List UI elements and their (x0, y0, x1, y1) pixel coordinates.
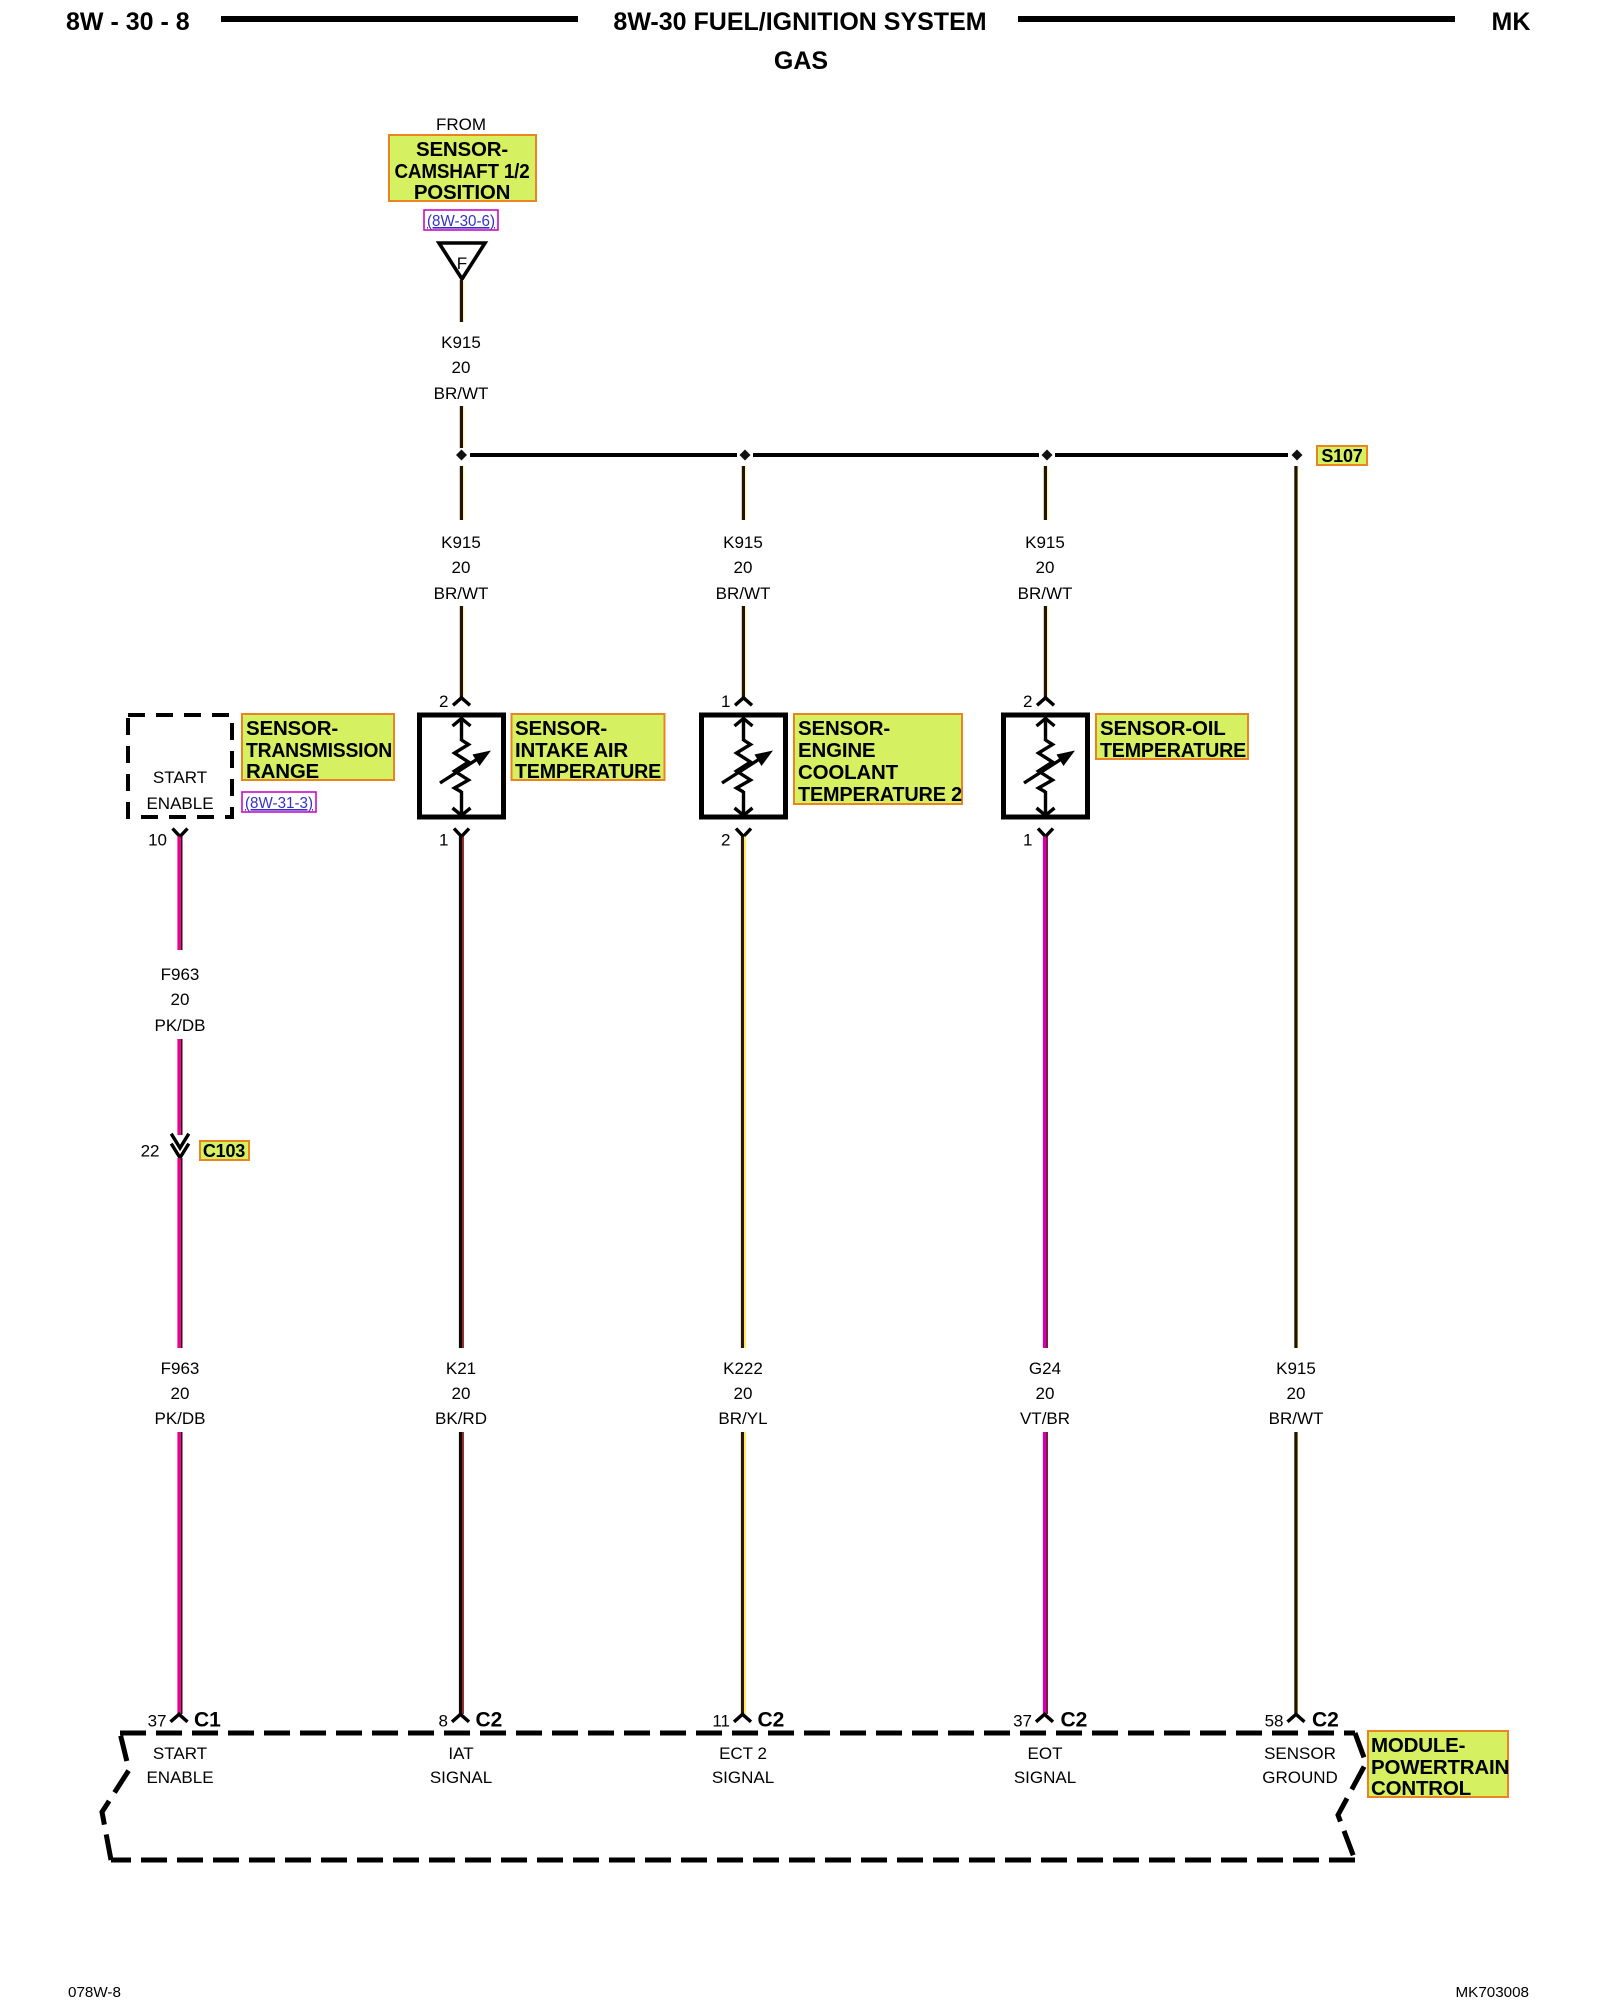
svg-text:37: 37 (1013, 1712, 1032, 1731)
svg-text:FROM: FROM (436, 115, 486, 134)
off-page connector F (triangle) (439, 243, 485, 279)
wire F963 to PCM pin 37 (179, 1432, 182, 1714)
svg-text:RANGE: RANGE (246, 760, 319, 783)
svg-text:20: 20 (1036, 1384, 1055, 1403)
svg-text:078W-8: 078W-8 (68, 1984, 121, 2000)
svg-text:MODULE-: MODULE- (1371, 1734, 1465, 1757)
svg-text:GROUND: GROUND (1262, 1768, 1338, 1787)
svg-text:ECT 2: ECT 2 (719, 1744, 767, 1763)
wire K915 to PCM pin 58 (1296, 1432, 1299, 1714)
svg-text:MK703008: MK703008 (1456, 1984, 1529, 2000)
svg-text:C1: C1 (194, 1709, 221, 1732)
svg-text:START: START (153, 768, 207, 787)
svg-text:SENSOR: SENSOR (1264, 1744, 1336, 1763)
wire F963 into C103 (179, 1039, 182, 1135)
svg-text:C103: C103 (203, 1141, 245, 1161)
thermistor EOT sensor box (1004, 715, 1088, 817)
svg-text:11: 11 (712, 1712, 730, 1731)
wire drop to ECT2 sensor (744, 466, 747, 520)
svg-text:BK/RD: BK/RD (435, 1409, 487, 1428)
svg-text:BR/YL: BR/YL (718, 1409, 767, 1428)
svg-text:TEMPERATURE 2: TEMPERATURE 2 (798, 783, 962, 806)
splice label S107 (1317, 446, 1367, 466)
PCM function label EOT SIGNAL (1014, 1744, 1076, 1787)
svg-text:20: 20 (171, 990, 190, 1009)
wire K21 from IAT pin 1 (461, 837, 464, 1349)
svg-text:TRANSMISSION: TRANSMISSION (246, 739, 392, 762)
svg-text:TEMPERATURE: TEMPERATURE (1100, 739, 1246, 762)
svg-text:2: 2 (439, 692, 448, 711)
PCM pin 8 terminal C2 (439, 1709, 503, 1732)
svg-text:S107: S107 (1321, 446, 1362, 466)
svg-text:F963: F963 (161, 1359, 200, 1378)
svg-text:58: 58 (1265, 1712, 1284, 1731)
svg-text:C2: C2 (1312, 1709, 1339, 1732)
wire K21 to PCM pin 8 (461, 1432, 464, 1714)
svg-text:F963: F963 (161, 965, 200, 984)
junction at camshaft column (456, 450, 467, 461)
svg-text:SENSOR-: SENSOR- (416, 138, 508, 161)
svg-text:BR/WT: BR/WT (1018, 584, 1073, 603)
svg-text:PK/DB: PK/DB (154, 1016, 205, 1035)
PCM pin 37 terminal C2 (1013, 1709, 1087, 1732)
svg-text:K915: K915 (723, 533, 763, 552)
wire K222 to PCM pin 11 (743, 1432, 746, 1714)
wire into EOT pin 2 (1046, 606, 1049, 698)
module PCM dashed outline (102, 1733, 1366, 1860)
svg-text:1: 1 (1023, 831, 1032, 850)
wire G24 from EOT pin 1 (1045, 837, 1048, 1349)
svg-text:ENGINE: ENGINE (798, 739, 875, 762)
wire label K222 20 BR/YL (718, 1359, 767, 1428)
junction S107 right end (1292, 450, 1303, 461)
svg-text:2: 2 (1023, 692, 1032, 711)
pin 1 terminal ECT2 (721, 692, 752, 711)
svg-text:SENSOR-: SENSOR- (515, 717, 607, 740)
svg-text:BR/WT: BR/WT (434, 584, 489, 603)
svg-text:MK: MK (1492, 8, 1531, 36)
splice bus S107 horizontal wire (470, 453, 737, 457)
svg-text:K915: K915 (441, 533, 481, 552)
wire label K21 20 BK/RD (435, 1359, 487, 1428)
reference link 8W-31-3 (242, 792, 316, 812)
svg-text:VT/BR: VT/BR (1020, 1409, 1070, 1428)
svg-text:SIGNAL: SIGNAL (1014, 1768, 1076, 1787)
component label SENSOR-OIL TEMPERATURE (1096, 714, 1248, 762)
svg-text:TEMPERATURE: TEMPERATURE (515, 760, 661, 783)
wire K222 from ECT2 pin 2 (743, 837, 746, 1349)
svg-text:GAS: GAS (774, 47, 828, 75)
header rule right (1018, 16, 1455, 22)
svg-text:(8W-30-6): (8W-30-6) (427, 213, 495, 230)
component label SENSOR-ENGINE COOLANT TEMPERATURE 2 (794, 714, 962, 806)
junction at EOT column (1042, 450, 1053, 461)
wire label K915 20 BR/WT (IAT branch) (434, 533, 489, 603)
svg-text:INTAKE AIR: INTAKE AIR (515, 739, 628, 762)
wire drop to EOT sensor (1046, 466, 1049, 520)
svg-text:BR/WT: BR/WT (434, 384, 489, 403)
wire label G24 20 VT/BR (1020, 1359, 1070, 1428)
svg-text:8W-30 FUEL/IGNITION SYSTEM: 8W-30 FUEL/IGNITION SYSTEM (613, 8, 986, 36)
svg-text:ENABLE: ENABLE (146, 794, 213, 813)
wire K915 into splice (462, 406, 465, 448)
svg-text:1: 1 (439, 831, 448, 850)
svg-text:SIGNAL: SIGNAL (712, 1768, 774, 1787)
wire bus segment 2 (753, 453, 1039, 457)
PCM pin 37 terminal C1 (148, 1709, 222, 1732)
wire label K915 20 BR/WT (top) (434, 333, 489, 403)
svg-text:SENSOR-: SENSOR- (246, 717, 338, 740)
svg-text:POWERTRAIN: POWERTRAIN (1371, 1756, 1509, 1779)
svg-text:CAMSHAFT 1/2: CAMSHAFT 1/2 (395, 160, 530, 183)
svg-text:C2: C2 (758, 1709, 785, 1732)
svg-text:ENABLE: ENABLE (146, 1768, 213, 1787)
svg-text:20: 20 (1287, 1384, 1306, 1403)
wire F963 from C103 down (179, 1158, 182, 1348)
svg-text:20: 20 (171, 1384, 190, 1403)
svg-text:20: 20 (734, 1384, 753, 1403)
wire label K915 20 BR/WT (EOT branch) (1018, 533, 1073, 603)
svg-text:COOLANT: COOLANT (798, 761, 899, 784)
svg-text:IAT: IAT (448, 1744, 473, 1763)
wire into ECT2 pin 1 (744, 606, 747, 698)
reference link 8W-30-6 (424, 210, 498, 230)
pin 2 terminal IAT (439, 692, 470, 711)
switch START ENABLE (transmission range, dashed) (128, 715, 232, 817)
svg-text:22: 22 (141, 1142, 160, 1161)
svg-text:20: 20 (1036, 558, 1055, 577)
wire label K915 20 BR/WT (ECT2 branch) (716, 533, 771, 603)
PCM function label SENSOR GROUND (1262, 1744, 1338, 1787)
wire bus segment 3 (1055, 453, 1288, 457)
svg-text:K21: K21 (446, 1359, 476, 1378)
PCM pin 11 terminal C2 (712, 1709, 784, 1732)
svg-text:10: 10 (148, 831, 167, 850)
svg-text:F: F (457, 254, 467, 273)
svg-text:G24: G24 (1029, 1359, 1061, 1378)
svg-text:37: 37 (148, 1712, 167, 1731)
wire label F963 20 PK/DB (lower) (154, 1359, 205, 1428)
svg-text:SENSOR-: SENSOR- (798, 717, 890, 740)
component label SENSOR-CAMSHAFT 1/2 POSITION (389, 135, 536, 204)
wire G24 to PCM pin 37 (1045, 1432, 1048, 1714)
header rule left (221, 16, 578, 22)
in-line connector C103 pin 22 (141, 1134, 189, 1161)
svg-text:SIGNAL: SIGNAL (430, 1768, 492, 1787)
wire K915 from connector F down (462, 280, 465, 322)
svg-text:K915: K915 (1025, 533, 1065, 552)
svg-text:K222: K222 (723, 1359, 763, 1378)
wire label K915 20 BR/WT (ground leg) (1269, 1359, 1324, 1428)
svg-text:EOT: EOT (1028, 1744, 1063, 1763)
PCM pin 58 terminal C2 (1265, 1709, 1339, 1732)
svg-text:BR/WT: BR/WT (1269, 1409, 1324, 1428)
pin 2 terminal EOT (1023, 692, 1054, 711)
thermistor ECT2 sensor box (702, 715, 786, 817)
svg-text:K915: K915 (441, 333, 481, 352)
svg-text:20: 20 (734, 558, 753, 577)
wire drop to IAT sensor (462, 466, 465, 520)
pin 1 terminal below IAT (439, 829, 469, 850)
PCM function label ECT 2 SIGNAL (712, 1744, 774, 1787)
component label SENSOR-INTAKE AIR TEMPERATURE (512, 714, 665, 783)
wire F963 from START ENABLE pin 10 (179, 837, 182, 951)
pin 2 terminal below ECT2 (721, 829, 751, 850)
connector label C103 (200, 1141, 249, 1161)
wire into IAT pin 2 (462, 606, 465, 698)
svg-text:PK/DB: PK/DB (154, 1409, 205, 1428)
pin 10 terminal below START ENABLE (148, 829, 187, 850)
svg-text:C2: C2 (476, 1709, 503, 1732)
svg-text:8W - 30 - 8: 8W - 30 - 8 (66, 8, 190, 36)
pin 1 terminal below EOT (1023, 829, 1053, 850)
component label SENSOR-TRANSMISSION RANGE (242, 714, 394, 783)
svg-text:20: 20 (452, 358, 471, 377)
svg-text:20: 20 (452, 558, 471, 577)
svg-text:SENSOR-OIL: SENSOR-OIL (1100, 717, 1226, 740)
PCM function label START ENABLE (146, 1744, 213, 1787)
svg-text:POSITION: POSITION (414, 181, 510, 204)
PCM function label IAT SIGNAL (430, 1744, 492, 1787)
svg-text:2: 2 (721, 831, 730, 850)
svg-text:1: 1 (721, 692, 730, 711)
svg-text:20: 20 (452, 1384, 471, 1403)
svg-text:BR/WT: BR/WT (716, 584, 771, 603)
svg-text:START: START (153, 1744, 207, 1763)
svg-text:K915: K915 (1276, 1359, 1316, 1378)
thermistor IAT sensor box (420, 715, 504, 817)
junction at IAT column (740, 450, 751, 461)
wire label F963 20 PK/DB (upper) (154, 965, 205, 1035)
svg-text:8: 8 (439, 1712, 448, 1731)
svg-text:(8W-31-3): (8W-31-3) (245, 795, 313, 812)
svg-text:CONTROL: CONTROL (1371, 1777, 1471, 1800)
component label MODULE-POWERTRAIN CONTROL (1368, 1731, 1509, 1800)
wire K915 from splice S107 down (1296, 466, 1299, 1348)
svg-text:C2: C2 (1061, 1709, 1088, 1732)
